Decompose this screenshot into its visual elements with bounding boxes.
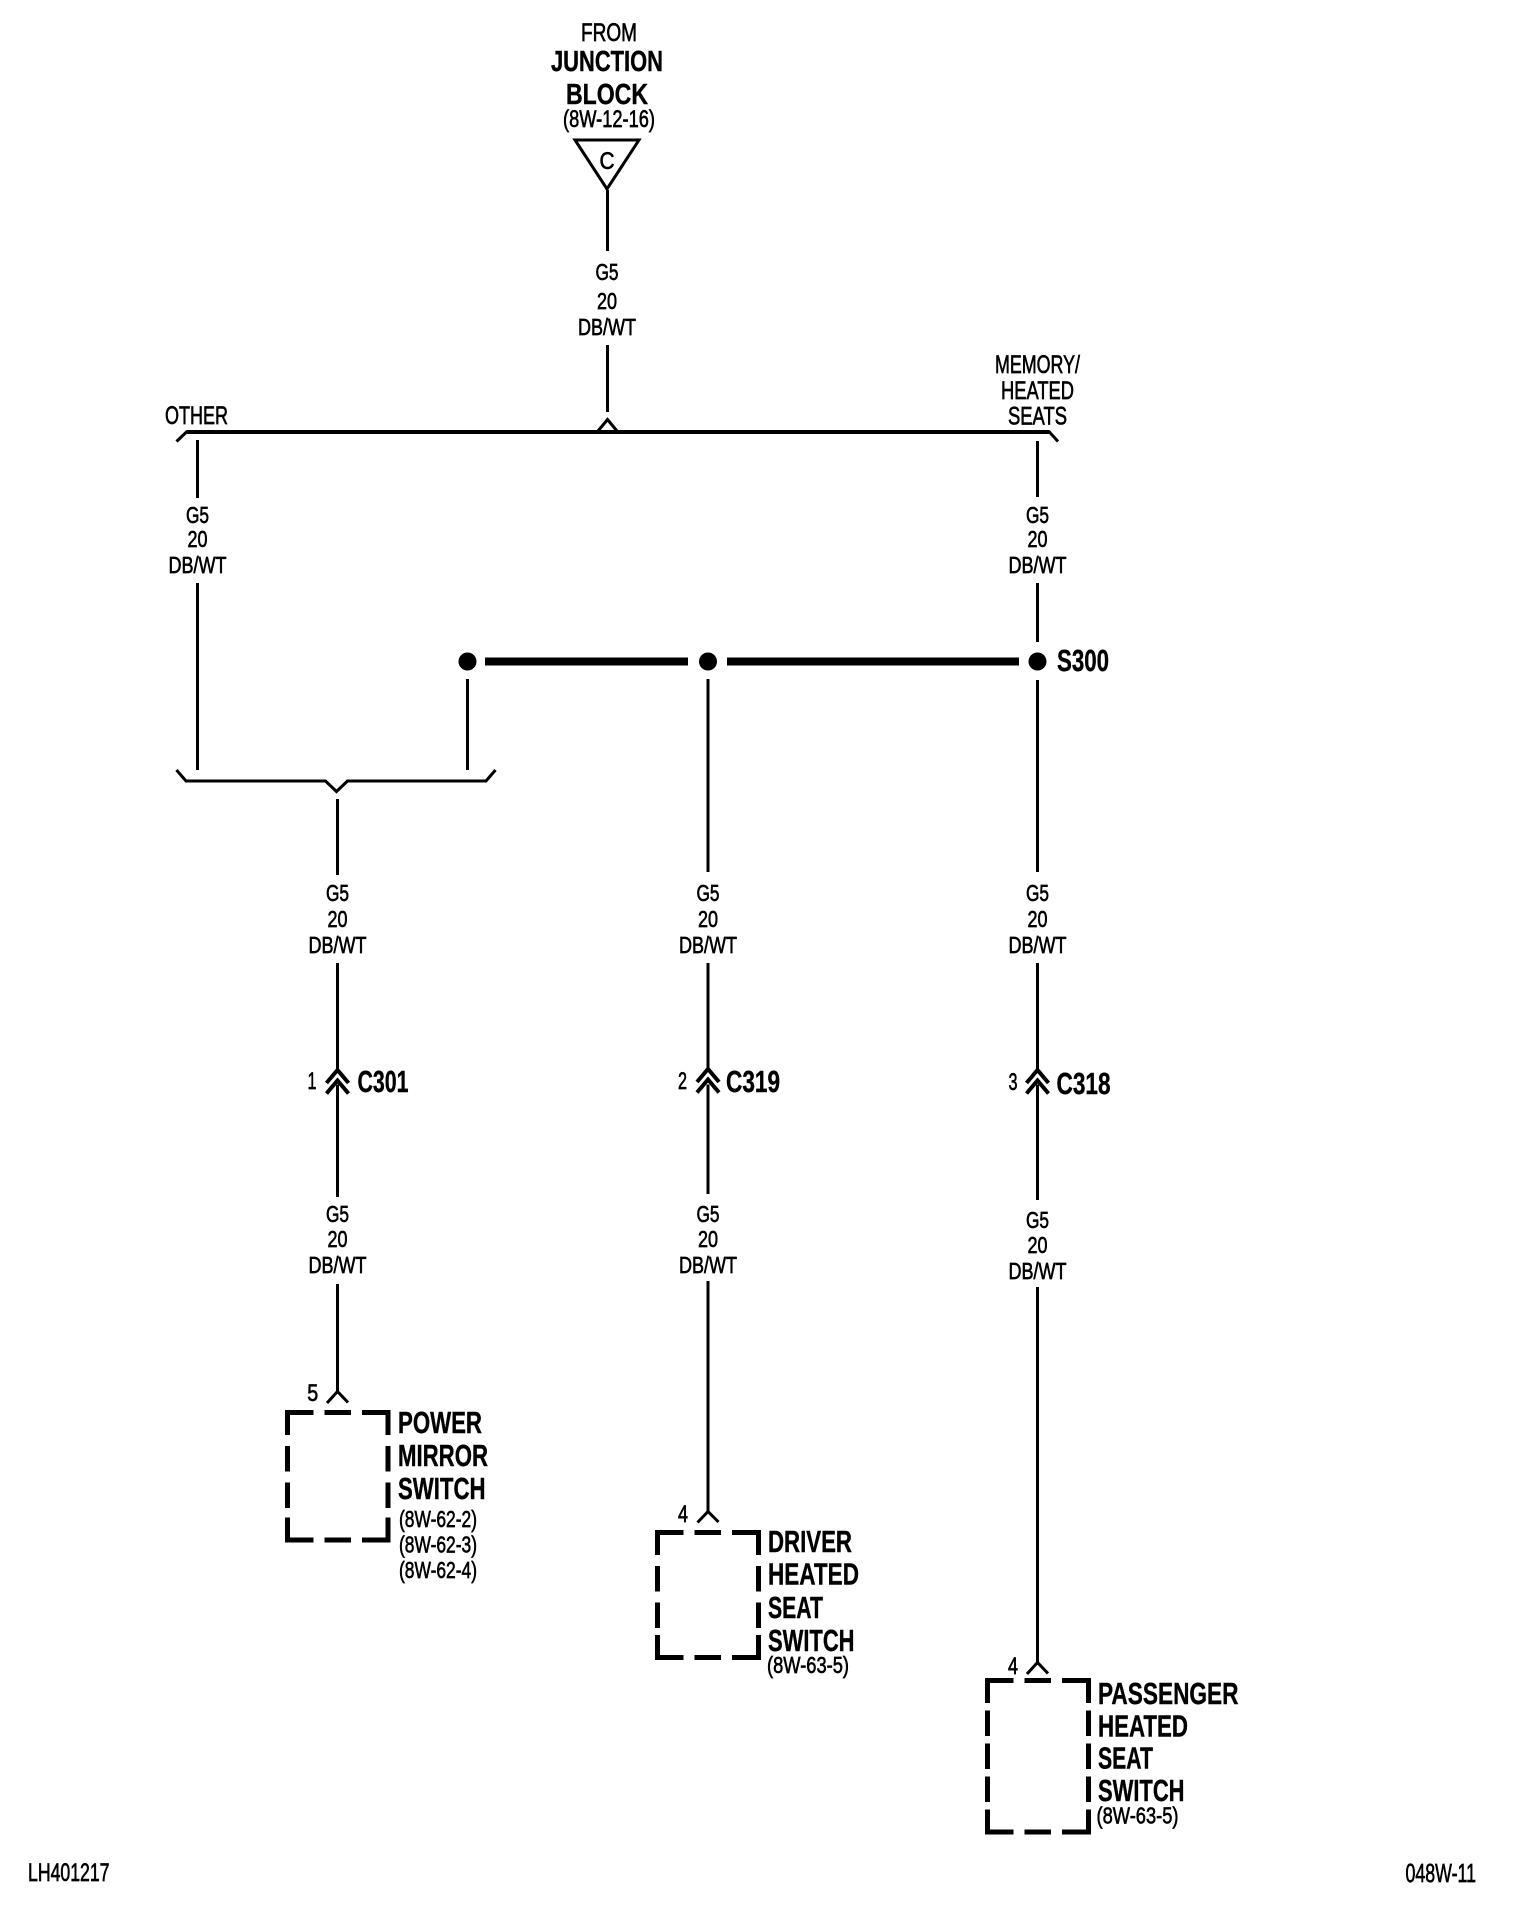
svg-text:5: 5 bbox=[307, 1380, 318, 1407]
connector C319 chevrons bbox=[697, 1069, 719, 1082]
wire branch3 to switch bbox=[1036, 1287, 1039, 1660]
svg-text:(8W-12-16): (8W-12-16) bbox=[563, 106, 655, 133]
svg-text:JUNCTION: JUNCTION bbox=[551, 46, 663, 78]
svg-text:C: C bbox=[600, 148, 615, 175]
svg-text:20: 20 bbox=[328, 906, 348, 932]
svg-text:C301: C301 bbox=[358, 1064, 409, 1099]
svg-text:MEMORY/: MEMORY/ bbox=[995, 351, 1080, 379]
svg-text:PASSENGER: PASSENGER bbox=[1098, 1676, 1239, 1711]
pin 5 fork bbox=[327, 1388, 348, 1403]
connector C triangle bbox=[575, 140, 639, 189]
wire to bus bbox=[606, 345, 609, 412]
bracket merge symbol bbox=[177, 770, 496, 792]
svg-text:MIRROR: MIRROR bbox=[398, 1438, 488, 1473]
svg-text:G5: G5 bbox=[1026, 1207, 1049, 1233]
component DRIVER HEATED SEAT SWITCH dashed box bbox=[658, 1533, 759, 1658]
svg-text:DB/WT: DB/WT bbox=[1009, 1258, 1067, 1284]
svg-text:DB/WT: DB/WT bbox=[169, 552, 227, 578]
pin 4 fork passenger bbox=[1027, 1659, 1048, 1674]
svg-text:20: 20 bbox=[188, 526, 208, 552]
node junction dot left bbox=[459, 653, 477, 671]
wire branch2 to switch bbox=[707, 1281, 710, 1509]
bus left end hook bbox=[177, 431, 188, 442]
pin 4 fork driver bbox=[698, 1508, 719, 1523]
svg-text:S300: S300 bbox=[1057, 643, 1109, 678]
component POWER MIRROR SWITCH dashed box bbox=[288, 1413, 389, 1541]
svg-text:C318: C318 bbox=[1057, 1066, 1111, 1101]
wire branch1 below bracket bbox=[336, 799, 339, 875]
svg-text:DB/WT: DB/WT bbox=[309, 932, 367, 958]
svg-text:G5: G5 bbox=[697, 1201, 720, 1227]
svg-text:DB/WT: DB/WT bbox=[679, 1252, 737, 1278]
svg-text:DB/WT: DB/WT bbox=[1009, 932, 1067, 958]
svg-text:HEATED: HEATED bbox=[1098, 1709, 1188, 1744]
svg-text:G5: G5 bbox=[1026, 502, 1049, 528]
svg-text:20: 20 bbox=[1028, 906, 1048, 932]
bus wire horizontal bbox=[187, 430, 1049, 434]
svg-text:(8W-62-4): (8W-62-4) bbox=[399, 1557, 477, 1583]
svg-text:HEATED: HEATED bbox=[1001, 377, 1074, 405]
svg-text:(8W-63-5): (8W-63-5) bbox=[767, 1652, 849, 1678]
svg-text:20: 20 bbox=[698, 906, 718, 932]
component PASSENGER HEATED SEAT SWITCH dashed box bbox=[988, 1681, 1089, 1833]
svg-text:DB/WT: DB/WT bbox=[309, 1252, 367, 1278]
wire left drop upper bbox=[196, 440, 199, 498]
splice bus S300 bbox=[485, 658, 688, 666]
svg-text:G5: G5 bbox=[697, 880, 720, 906]
svg-text:G5: G5 bbox=[596, 259, 619, 285]
wire from triangle C bbox=[606, 190, 609, 251]
wire branch1 to switch bbox=[336, 1284, 339, 1389]
wire branch1 below C301 bbox=[336, 1085, 339, 1198]
node splice dot S300 bbox=[1029, 653, 1047, 671]
connector C301 chevrons bbox=[327, 1070, 349, 1083]
wire branch1 to C301 bbox=[336, 963, 339, 1070]
bus right end hook bbox=[1049, 431, 1059, 442]
svg-text:DB/WT: DB/WT bbox=[578, 314, 636, 340]
svg-text:G5: G5 bbox=[326, 880, 349, 906]
svg-text:20: 20 bbox=[698, 1226, 718, 1252]
connector C318 chevrons bbox=[1027, 1070, 1049, 1083]
svg-text:(8W-62-3): (8W-62-3) bbox=[399, 1532, 477, 1558]
svg-text:(8W-62-2): (8W-62-2) bbox=[399, 1506, 477, 1532]
svg-text:SEAT: SEAT bbox=[768, 1590, 823, 1625]
svg-text:POWER: POWER bbox=[398, 1405, 482, 1440]
wire branch3 to C318 bbox=[1036, 963, 1039, 1069]
node junction dot middle bbox=[699, 653, 717, 671]
junction caret at bus bbox=[598, 420, 617, 432]
wire right to splice bbox=[1036, 583, 1039, 642]
wire from left dot down bbox=[466, 679, 469, 770]
svg-text:1: 1 bbox=[308, 1068, 317, 1095]
svg-text:20: 20 bbox=[328, 1226, 348, 1252]
wire from middle dot down bbox=[707, 679, 710, 872]
svg-text:G5: G5 bbox=[1026, 880, 1049, 906]
svg-text:FROM: FROM bbox=[581, 19, 637, 47]
svg-text:SEATS: SEATS bbox=[1008, 403, 1067, 431]
wire left drop lower bbox=[196, 583, 199, 770]
wire right drop upper bbox=[1036, 441, 1039, 497]
svg-text:G5: G5 bbox=[186, 502, 209, 528]
svg-text:LH401217: LH401217 bbox=[28, 1859, 110, 1887]
svg-text:048W-11: 048W-11 bbox=[1406, 1860, 1477, 1888]
svg-text:C319: C319 bbox=[726, 1064, 780, 1099]
svg-text:20: 20 bbox=[1028, 1232, 1048, 1258]
svg-text:OTHER: OTHER bbox=[165, 402, 228, 430]
svg-text:3: 3 bbox=[1009, 1069, 1018, 1096]
svg-text:4: 4 bbox=[678, 1501, 688, 1528]
svg-text:4: 4 bbox=[1008, 1653, 1018, 1680]
svg-text:SWITCH: SWITCH bbox=[398, 1471, 486, 1506]
svg-text:(8W-63-5): (8W-63-5) bbox=[1097, 1803, 1179, 1829]
svg-text:HEATED: HEATED bbox=[768, 1557, 859, 1592]
wire branch2 below C319 bbox=[707, 1085, 710, 1195]
wire branch3 below C318 bbox=[1036, 1085, 1039, 1201]
wire branch2 to C319 bbox=[707, 963, 710, 1069]
svg-text:DB/WT: DB/WT bbox=[679, 932, 737, 958]
svg-text:20: 20 bbox=[597, 288, 617, 314]
svg-text:20: 20 bbox=[1028, 526, 1048, 552]
svg-text:DRIVER: DRIVER bbox=[768, 1524, 852, 1559]
svg-text:DB/WT: DB/WT bbox=[1009, 552, 1067, 578]
wire from S300 down bbox=[1036, 680, 1039, 872]
svg-text:2: 2 bbox=[678, 1068, 687, 1095]
svg-text:G5: G5 bbox=[326, 1201, 349, 1227]
svg-text:SEAT: SEAT bbox=[1098, 1741, 1153, 1776]
